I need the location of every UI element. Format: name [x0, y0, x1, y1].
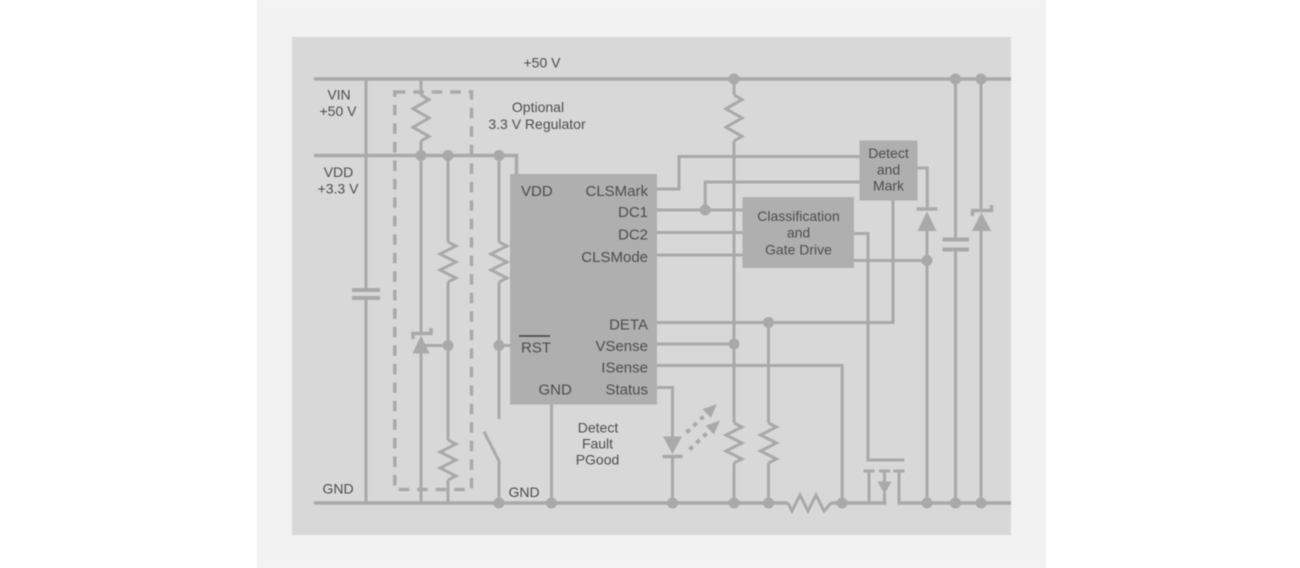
- svg-text:+3.3 V: +3.3 V: [318, 181, 360, 197]
- svg-text:DC1: DC1: [618, 204, 648, 221]
- diode D1 cathode bar: [917, 207, 938, 211]
- LED D2 cathode bar: [663, 455, 683, 459]
- GND rail left segment: [314, 501, 788, 505]
- wire input cap column (lower, to GND rail): [365, 300, 368, 503]
- node GND junction (IC): [546, 498, 557, 509]
- node divider junction: [443, 340, 454, 351]
- capacitor CIN: [352, 290, 380, 298]
- wire CLSMode to Classification: [657, 254, 743, 257]
- LED arrow 2 head: [706, 421, 720, 435]
- node DETA junction: [763, 317, 774, 328]
- dashed box: optional 3.3 V regulator: [395, 92, 472, 490]
- +50 V top rail: [314, 77, 1011, 81]
- resistor R4 (RST pull-up): [491, 242, 507, 282]
- node GND junction (switch): [494, 498, 505, 509]
- node VDD junction (R4 column): [494, 150, 505, 161]
- wire output cap column bottom: [954, 252, 957, 504]
- wire regulator column top stub: [420, 79, 423, 95]
- svg-text:+50 V: +50 V: [524, 55, 562, 71]
- wire Detect and Mark to diode D1: [918, 168, 928, 208]
- node VDD junction (R2 column): [443, 150, 454, 161]
- resistor R2 (upper divider): [440, 242, 456, 282]
- zener diode Z2 body: [972, 213, 991, 232]
- wire divider column R2 top: [447, 156, 450, 243]
- wire Status to LED: [657, 388, 673, 438]
- wire zener anode to divider node: [422, 344, 448, 347]
- wire GND rail to MOSFET source: [831, 501, 887, 505]
- wire VSense node to R6: [733, 344, 736, 423]
- wire VSense to node: [657, 343, 734, 346]
- wire LED to GND rail: [671, 458, 674, 503]
- zener diode Z1 cathode bar: [413, 328, 431, 339]
- wire R5 column top stub: [733, 79, 736, 95]
- LED arrow 2 shaft: [690, 434, 707, 450]
- RST overline: [519, 335, 550, 337]
- wire R5 to VSense node: [733, 141, 736, 344]
- node GND junction (LED): [667, 498, 678, 509]
- node GND junction (R6): [729, 498, 740, 509]
- VDD rail (to IC VDD pin): [314, 156, 517, 176]
- svg-text:Detect: Detect: [578, 420, 619, 436]
- node GND junction (D1): [922, 498, 933, 509]
- svg-text:Classification: Classification: [757, 208, 839, 224]
- wire regulator column to zener: [420, 141, 423, 332]
- svg-text:VSense: VSense: [595, 338, 648, 355]
- svg-text:GND: GND: [508, 484, 539, 500]
- svg-text:Mark: Mark: [873, 178, 905, 194]
- wire Z2 anode to GND rail: [980, 231, 983, 503]
- svg-text:VIN: VIN: [327, 87, 350, 103]
- wire R6 to GND rail: [733, 463, 736, 503]
- LED D2 body: [663, 437, 682, 455]
- wire DC2 to Classification: [657, 231, 743, 234]
- wire Classification to MOSFET gate: [854, 234, 904, 461]
- wire ISense to sense node: [657, 366, 842, 504]
- svg-text:Fault: Fault: [582, 436, 613, 452]
- svg-text:Optional: Optional: [512, 99, 564, 115]
- svg-text:and: and: [877, 162, 900, 178]
- node +50V junction (Z2): [976, 74, 987, 85]
- node D1 junction: [922, 255, 933, 266]
- svg-text:DC2: DC2: [618, 227, 648, 244]
- capacitor C2: [943, 240, 970, 250]
- resistor RS (current sense, series in GND rail): [788, 495, 831, 511]
- wire DETA to Detect and Mark bottom: [657, 201, 893, 323]
- wire pullup column R4 top: [498, 156, 501, 243]
- wire R7 to GND rail: [767, 463, 770, 503]
- svg-text:GND: GND: [322, 481, 353, 497]
- svg-text:Detect: Detect: [868, 145, 909, 161]
- wire output cap column top: [954, 79, 957, 238]
- node VSense junction: [729, 339, 740, 350]
- svg-text:RST: RST: [521, 340, 551, 357]
- svg-text:Status: Status: [605, 382, 648, 399]
- svg-text:3.3 V Regulator: 3.3 V Regulator: [488, 116, 586, 132]
- GND rail right segment: [898, 501, 1012, 505]
- node DC1 junction: [700, 205, 711, 216]
- wire switch top stub: [498, 346, 501, 420]
- wire R4 to RST node: [498, 282, 501, 346]
- wire node to R3: [447, 346, 450, 441]
- resistor R7 (DETA to ground): [761, 423, 777, 463]
- wire R2 to node: [447, 282, 450, 346]
- MOSFET Q1 drain lead: [898, 471, 901, 503]
- zener diode Z1 body: [413, 336, 430, 354]
- wire R3 to GND rail: [447, 480, 450, 503]
- wire CLSMark to Detect and Mark: [657, 157, 860, 190]
- node GND junction (ISense): [837, 498, 848, 509]
- wire Classification to diode D1 node: [854, 259, 927, 262]
- svg-text:Gate Drive: Gate Drive: [765, 242, 832, 258]
- wire DETA node to R7: [767, 323, 770, 424]
- wire switch to GND rail: [498, 461, 501, 503]
- diagram background: [292, 37, 1011, 535]
- switch S1 blade (reset pushbutton): [484, 432, 499, 462]
- wire zener Z2 column top: [980, 79, 983, 209]
- wire DC1 branch to Detect and Mark: [705, 182, 859, 210]
- MOSFET Q1 channel bars: [864, 470, 905, 473]
- wire IC GND to rail: [550, 404, 553, 503]
- diode D1 body: [918, 212, 937, 232]
- zener diode Z2 cathode bar: [973, 205, 992, 216]
- svg-text:VDD: VDD: [521, 183, 553, 200]
- svg-text:CLSMark: CLSMark: [585, 183, 648, 200]
- node GND junction (R7): [763, 498, 774, 509]
- resistor R3 (lower divider): [440, 440, 456, 480]
- resistor R5 (from +50 V rail): [726, 95, 742, 141]
- wire zener anode to GND rail: [420, 352, 423, 503]
- svg-text:VDD: VDD: [324, 164, 354, 180]
- MOSFET Q1 body lead: [883, 471, 886, 482]
- MOSFET Q1 body stub: [883, 493, 886, 503]
- svg-text:PGood: PGood: [576, 452, 620, 468]
- wire D1 anode to GND rail: [926, 231, 929, 503]
- figure panel background band: [257, 0, 1046, 568]
- node RST junction: [494, 340, 505, 351]
- MOSFET Q1 body arrow: [878, 482, 892, 495]
- IC U1 (PoE PD controller) body: [510, 174, 657, 405]
- svg-text:and: and: [787, 225, 810, 241]
- svg-text:GND: GND: [539, 382, 573, 399]
- resistor R1 (series regulator resistor): [413, 95, 429, 141]
- node +50V junction (R5 column): [729, 74, 740, 85]
- node +50V junction (C2): [950, 74, 961, 85]
- resistor R6 (VSense lower divider): [726, 423, 742, 463]
- MOSFET Q1 source lead: [868, 471, 871, 503]
- wire input cap column (upper, from +50V rail): [365, 79, 368, 289]
- node GND junction (Z2): [976, 498, 987, 509]
- Classification and Gate Drive block: [743, 197, 855, 268]
- LED arrow 1 head: [703, 404, 717, 418]
- svg-text:CLSMode: CLSMode: [581, 249, 648, 266]
- svg-text:+50 V: +50 V: [320, 103, 358, 119]
- LED arrow 1 shaft: [687, 417, 704, 433]
- svg-text:ISense: ISense: [601, 360, 648, 377]
- node GND junction (C2): [950, 498, 961, 509]
- wire DC1 to Classification: [657, 209, 743, 212]
- svg-text:DETA: DETA: [609, 317, 648, 334]
- Detect and Mark block: [860, 141, 918, 201]
- wire RST node to IC pin: [499, 344, 511, 347]
- node VDD junction (regulator column): [416, 150, 427, 161]
